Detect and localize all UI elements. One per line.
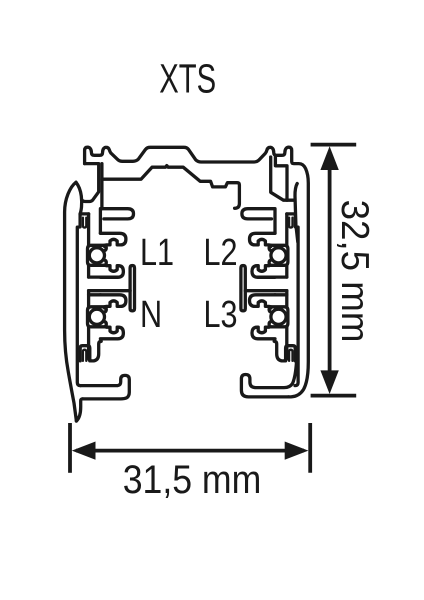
wall top rib slot	[83, 218, 86, 228]
svg-text:L2: L2	[204, 232, 238, 274]
vertical dimension 32,5 mm	[311, 143, 357, 147]
right saddle web + pocket	[271, 157, 295, 200]
label L2	[204, 232, 238, 274]
label L1	[140, 232, 174, 274]
svg-text:XTS: XTS	[159, 56, 216, 102]
label N	[140, 294, 162, 336]
wall outer edge + bottom arm + hook finger	[77, 214, 88, 386]
wall bottom rib box	[80, 346, 90, 361]
left bottom hook arm + finger	[80, 375, 129, 399]
right fin inner edge	[295, 184, 298, 243]
separator shelf between assemblies	[89, 275, 118, 278]
svg-text:L3: L3	[204, 294, 238, 336]
profile inner top contour (plate underside with notch)	[102, 166, 240, 209]
left fin bottom tip inner edge	[76, 399, 82, 421]
pocket	[88, 245, 105, 265]
svg-text:L1: L1	[140, 232, 174, 274]
title XTS	[159, 56, 216, 102]
left fin (outer blade)	[65, 182, 77, 421]
upper finger	[100, 233, 126, 246]
wall inner edge segments + floor step	[87, 214, 90, 245]
ceiling band finger	[100, 209, 133, 234]
conductor assembly L1	[88, 233, 126, 277]
left fin inner edge	[76, 182, 82, 214]
right bottom hook arm + finger	[241, 362, 296, 397]
N finger connector to wall	[89, 293, 101, 296]
profile outer top contour (ears, hump, right shoulder, right fin outer)	[85, 147, 309, 397]
right half body (mirror)	[241, 209, 298, 386]
left ear web piece	[82, 164, 99, 202]
left ear web right edge	[100, 164, 103, 209]
left half body (mirrored for right)	[77, 209, 134, 386]
svg-text:N: N	[140, 294, 162, 336]
label L3	[204, 294, 238, 336]
conductor circle	[89, 248, 104, 263]
svg-text:32,5 mm: 32,5 mm	[333, 200, 376, 343]
horizontal dimension 31,5 mm	[68, 423, 72, 473]
separator end bar	[130, 266, 134, 311]
lower finger	[100, 266, 123, 278]
svg-text:31,5 mm: 31,5 mm	[123, 457, 262, 501]
conductor assembly N	[88, 295, 126, 339]
